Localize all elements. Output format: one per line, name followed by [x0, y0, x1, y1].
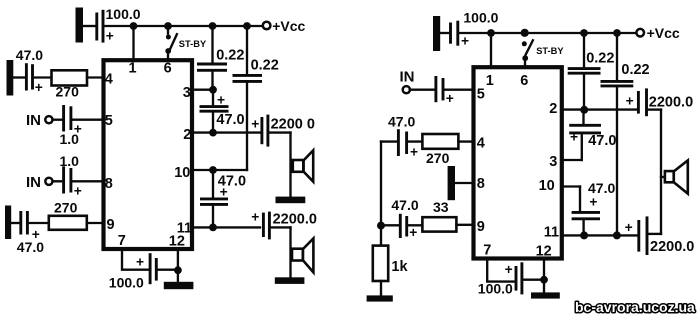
wire to pin 8 [455, 182, 474, 184]
wire bottom link [649, 233, 661, 235]
capacitor 0.22 (first, left) [211, 26, 213, 63]
wire to pin 4 [458, 140, 473, 142]
svg-text:+: + [589, 195, 597, 210]
svg-text:7: 7 [483, 243, 491, 259]
junction dot 0.22 rail [209, 22, 217, 30]
wire pin 12 stub [543, 259, 545, 293]
wire Vcc rail (right) [460, 32, 637, 34]
capacitor 47.0 (pins 2-3, right) [582, 110, 584, 124]
wire to pin 12 node [524, 279, 545, 281]
svg-text:4: 4 [477, 136, 485, 152]
svg-text:+: + [35, 80, 43, 95]
svg-text:11: 11 [544, 224, 559, 240]
svg-text:ST-BY: ST-BY [179, 39, 207, 49]
ground bar (pin 4 input) [7, 60, 14, 96]
svg-text:33: 33 [433, 199, 449, 215]
svg-text:6: 6 [164, 61, 172, 77]
wire pin 2 row (right) [562, 108, 637, 110]
ground bar (speaker 1) [276, 197, 306, 204]
svg-text:6: 6 [520, 73, 528, 89]
svg-text:270: 270 [56, 84, 80, 100]
junction pin 2 [209, 129, 217, 137]
switch ST-BY (right) [522, 41, 527, 46]
capacitor 47.0 (pin 9) [19, 211, 22, 235]
svg-text:+: + [220, 185, 228, 200]
wire pin 10 row [192, 169, 247, 171]
junction dot 0.22b rail [243, 22, 251, 30]
wire [53, 119, 62, 121]
svg-text:0.22: 0.22 [621, 62, 649, 78]
svg-text:+: + [410, 144, 418, 159]
svg-text:IN: IN [400, 69, 415, 86]
wire pin 11 row (right) [562, 234, 637, 236]
wire to pin 4 [87, 76, 104, 78]
wire to speaker 1 [269, 131, 290, 133]
resistor 33 (right) [422, 217, 456, 231]
wire [34, 76, 51, 78]
ground bar (pin 8, right) [448, 166, 455, 200]
svg-text:3: 3 [183, 85, 191, 101]
junction (feedback node) [377, 222, 385, 230]
svg-text:IN: IN [26, 112, 41, 129]
svg-text:2: 2 [549, 101, 557, 117]
junction dot pin1 rail [487, 29, 495, 37]
svg-text:1: 1 [486, 73, 494, 89]
junction pin 11 [209, 224, 217, 232]
svg-text:+: + [505, 262, 513, 277]
capacitor 0.22 (second, left) [246, 26, 248, 74]
speaker LS1 [293, 160, 304, 172]
capacitor 100.0 (supply, left) [95, 13, 98, 41]
wire pin 7 stub (right) [487, 259, 513, 282]
svg-text:+: + [461, 34, 469, 49]
svg-text:1k: 1k [391, 259, 408, 275]
svg-text:100.0: 100.0 [109, 275, 144, 291]
svg-text:100.0: 100.0 [106, 6, 141, 22]
capacitor (pin 5 input, right) [434, 76, 437, 102]
wire ground to C100 [83, 25, 96, 27]
svg-text:+: + [74, 183, 82, 198]
svg-text:0.22: 0.22 [586, 51, 614, 67]
wire pin 11 row [192, 226, 260, 228]
svg-text:2200.0: 2200.0 [273, 212, 317, 228]
wire [381, 224, 399, 226]
svg-text:IN: IN [26, 174, 41, 191]
resistor 270 (pin 9) [49, 216, 87, 230]
wire to pin 9 [87, 222, 104, 224]
capacitor 100.0 (supply, right) [449, 23, 452, 44]
capacitor 0.22 (second, right) [616, 33, 618, 80]
wire pin 1 stub [132, 26, 134, 59]
svg-text:0.22: 0.22 [251, 57, 279, 73]
svg-text:47.0: 47.0 [388, 114, 415, 130]
svg-text:+: + [625, 220, 633, 235]
svg-text:1: 1 [129, 61, 137, 77]
junction dot 0.22b rail [613, 29, 621, 37]
svg-text:5: 5 [105, 113, 113, 129]
resistor 270 (pin 4) [52, 70, 88, 85]
wire pin 7 stub [122, 249, 149, 270]
svg-text:+: + [251, 209, 259, 224]
svg-text:1.0: 1.0 [60, 131, 80, 147]
wire pin 1 stub [490, 33, 492, 67]
speaker LS3 (bridge) [661, 176, 665, 178]
junction pin 2 [580, 106, 588, 114]
junction pin 11 b [613, 231, 621, 239]
op-amp IC U1 (left amplifier) [104, 60, 193, 249]
capacitor 0.22 (first, right) [583, 33, 585, 67]
wire [53, 180, 62, 182]
resistor 1k (vertical) [380, 226, 382, 246]
svg-text:8: 8 [105, 176, 113, 192]
junction dot pin6 rail [521, 29, 529, 37]
svg-text:47.0: 47.0 [216, 112, 244, 128]
terminal +Vcc (left) [263, 22, 271, 30]
op-amp IC U2 (right amplifier) [474, 67, 562, 258]
svg-text:+: + [106, 29, 114, 44]
capacitor 1.0 (pin 5 input) [62, 105, 65, 132]
wire pin 12 stub [177, 249, 179, 282]
svg-text:270: 270 [426, 150, 450, 166]
svg-text:10: 10 [174, 165, 190, 181]
wire [410, 89, 435, 91]
speaker LS2 [292, 249, 303, 261]
svg-text:+: + [251, 117, 259, 132]
svg-text:2200.0: 2200.0 [650, 239, 694, 255]
capacitor 47.0 (pin 9, right) [399, 214, 402, 238]
svg-text:+Vcc: +Vcc [647, 25, 680, 41]
junction pin 12 [540, 276, 548, 284]
junction dot 0.22 rail [580, 29, 588, 37]
wire to pin 12 node [158, 269, 178, 271]
junction pin 3 [209, 86, 217, 94]
svg-text:bc-avrora.ucoz.ua: bc-avrora.ucoz.ua [575, 299, 695, 315]
svg-text:+Vcc: +Vcc [272, 18, 305, 34]
ground (left IC) [164, 282, 194, 289]
wire [380, 281, 382, 295]
svg-text:3: 3 [549, 154, 557, 170]
svg-text:270: 270 [54, 199, 78, 215]
svg-text:100.0: 100.0 [478, 280, 513, 296]
svg-text:+: + [409, 225, 417, 240]
wire to pin 9 [456, 224, 473, 226]
svg-text:ST-BY: ST-BY [536, 46, 564, 56]
junction pin 10 [209, 166, 217, 174]
wire Vcc rail (left) [105, 25, 263, 27]
ground (right IC) [531, 292, 560, 298]
wire pin 10 row (right) [562, 185, 580, 187]
svg-text:9: 9 [107, 217, 115, 233]
svg-text:47.0: 47.0 [588, 133, 616, 149]
svg-text:47.0: 47.0 [391, 197, 418, 213]
svg-text:9: 9 [477, 219, 485, 235]
junction pin 11 a [580, 231, 588, 239]
svg-text:+: + [570, 129, 578, 144]
capacitor 47.0 (pins 10-11, right) [572, 211, 600, 214]
svg-text:2200.0: 2200.0 [649, 94, 693, 110]
capacitor 47.0 (pin 4 input) [25, 63, 28, 90]
wire to pin 5 [445, 89, 474, 91]
ground bar (top-left, for 100.0 cap) [76, 8, 84, 43]
capacitor 1.0 (pin 8 input) [62, 166, 65, 193]
wire feedback vertical [380, 142, 382, 226]
wire pin 3 row [192, 89, 213, 91]
wire to speaker 2 [271, 226, 291, 228]
ground bar (top, for 100.0 cap) [433, 16, 440, 51]
svg-text:12: 12 [536, 244, 552, 260]
ground (1k) [367, 295, 393, 301]
svg-text:12: 12 [169, 234, 185, 250]
svg-text:10: 10 [539, 178, 555, 194]
wire to speaker (right) [648, 108, 661, 110]
wire [11, 222, 20, 224]
svg-text:2200 0: 2200 0 [271, 117, 315, 133]
svg-text:+: + [136, 255, 144, 270]
wire to pin 5 [73, 119, 104, 121]
wire [381, 140, 397, 142]
wire pin 2 row [192, 131, 261, 133]
wire pin 3 row [562, 159, 582, 161]
wire [13, 76, 25, 78]
wire [440, 32, 449, 34]
svg-text:+: + [446, 91, 454, 106]
svg-text:2: 2 [183, 127, 191, 143]
svg-text:8: 8 [477, 176, 485, 192]
wire [409, 224, 423, 226]
capacitor 47.0 (pin 4, right) [397, 129, 400, 156]
svg-text:47.0: 47.0 [16, 47, 43, 63]
junction dot pin6 rail [164, 22, 172, 30]
svg-text:0.22: 0.22 [216, 47, 244, 63]
svg-text:+: + [626, 93, 634, 108]
junction dot pin1 rail [130, 22, 138, 30]
svg-text:100.0: 100.0 [463, 10, 498, 26]
svg-text:4: 4 [105, 71, 113, 87]
junction pin 12 [174, 266, 182, 274]
svg-text:47.0: 47.0 [17, 239, 44, 255]
terminal +Vcc (right) [636, 29, 644, 37]
wire [29, 222, 49, 224]
ground bar (speaker 2) [275, 277, 305, 284]
svg-text:5: 5 [477, 86, 485, 102]
resistor 270 (right) [422, 134, 458, 149]
svg-text:7: 7 [118, 233, 126, 249]
ground bar (pin 9 input) [5, 206, 11, 240]
switch ST-BY (left) [167, 26, 169, 34]
wire to pin 8 [73, 180, 104, 182]
